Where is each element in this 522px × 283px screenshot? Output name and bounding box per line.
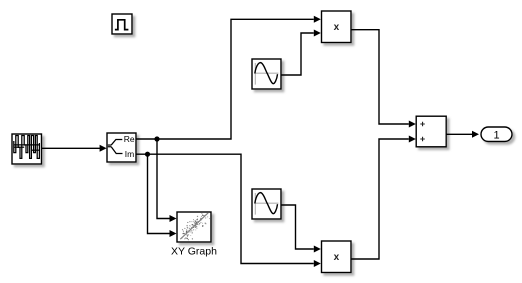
sum block	[416, 116, 446, 147]
svg-text:x: x	[334, 252, 340, 263]
wire Re output to product 1 input 1	[136, 16, 321, 139]
pulse generator block	[112, 14, 132, 34]
random binary source block	[12, 134, 42, 164]
wire sine 2 to product 2 input 1	[281, 205, 321, 253]
svg-text:Im: Im	[125, 149, 134, 159]
wire product 1 to sum input 1	[351, 30, 416, 128]
product block 2	[322, 241, 352, 273]
wire product 2 to sum input 2	[351, 136, 416, 260]
product block 1	[322, 11, 352, 43]
sine wave block 1	[252, 59, 281, 89]
svg-text:1: 1	[493, 129, 499, 141]
wire sine 1 to product 1 input 2	[281, 30, 321, 76]
wire Im junction to XY Graph input 2	[148, 154, 177, 237]
svg-text:Re: Re	[124, 134, 135, 144]
XY Graph scope block	[177, 212, 211, 242]
output port 1	[481, 127, 512, 142]
wire source to complex block	[42, 145, 107, 152]
junction node on Re wire	[154, 136, 159, 141]
svg-text:XY Graph: XY Graph	[171, 246, 217, 258]
sine wave block 2	[252, 189, 281, 219]
complex to real-imag block U1	[107, 133, 136, 162]
wire sum to output port	[447, 131, 480, 138]
wire Im output to product 2 input 2	[136, 154, 321, 267]
junction node on Im wire	[145, 152, 150, 157]
wire Re junction to XY Graph input 1	[157, 139, 177, 222]
svg-text:x: x	[334, 22, 340, 33]
